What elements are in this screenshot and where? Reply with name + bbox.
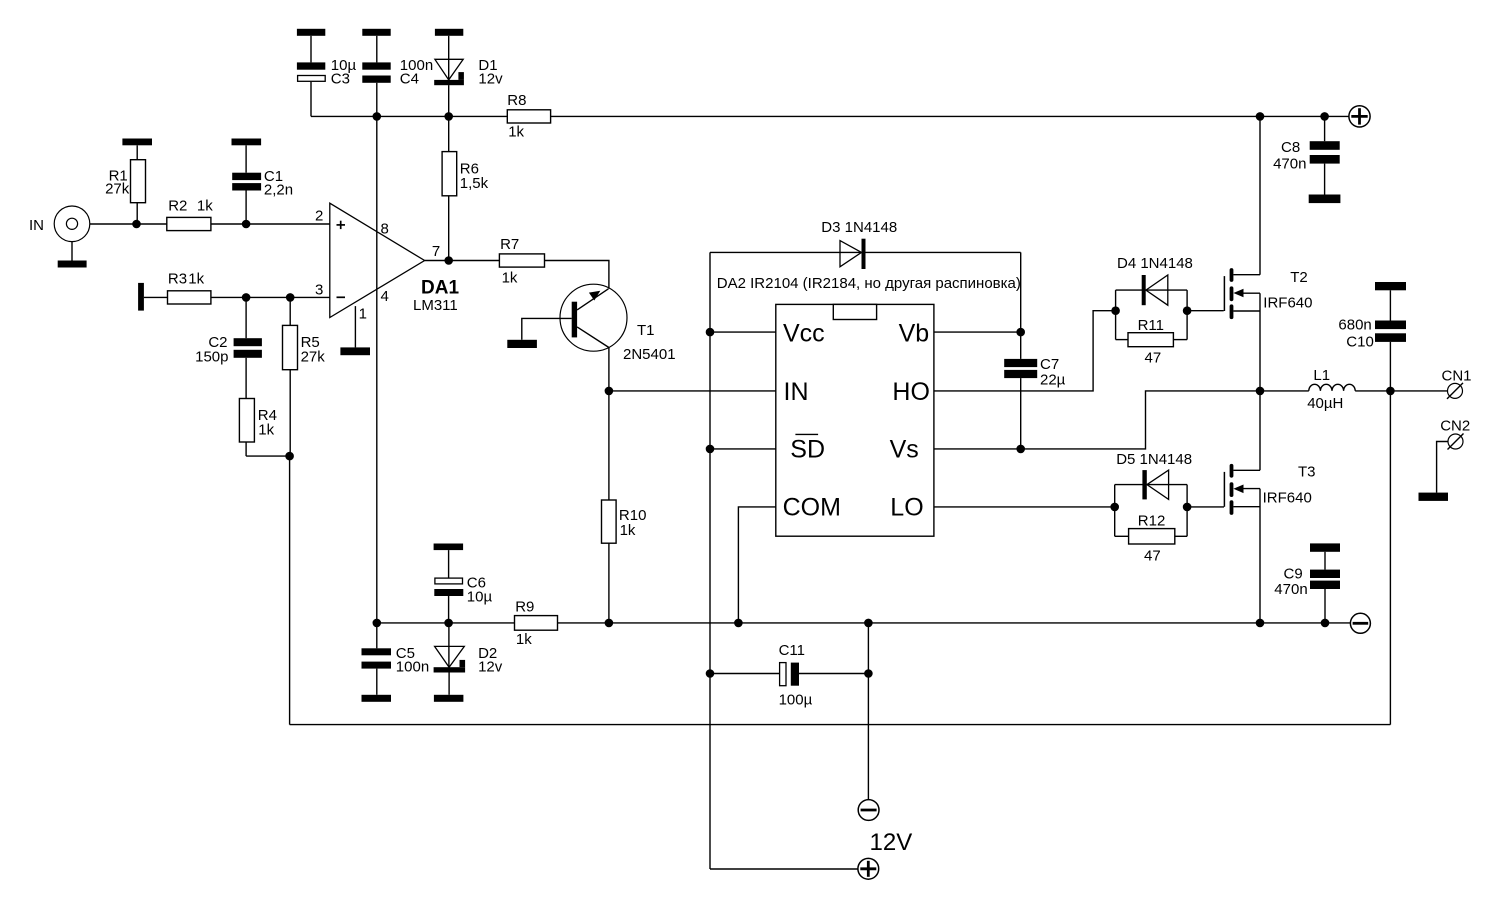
- wire ground bottom rail right: [558, 622, 1351, 624]
- svg-text:C4: C4: [400, 71, 419, 88]
- node Vb junction: [1016, 328, 1025, 337]
- node T3 gate junction: [1183, 503, 1192, 512]
- node C2 junction: [242, 293, 251, 302]
- ground (CN2): [1419, 493, 1449, 501]
- zener diode D1: [434, 29, 503, 117]
- svg-text:CN1: CN1: [1442, 368, 1472, 385]
- svg-text:IRF640: IRF640: [1263, 490, 1312, 507]
- svg-text:R3: R3: [168, 271, 187, 288]
- svg-text:Vs: Vs: [890, 435, 919, 463]
- svg-text:4: 4: [381, 288, 389, 305]
- svg-text:2: 2: [315, 207, 323, 224]
- node SD junction: [706, 445, 715, 454]
- svg-text:Vcc: Vcc: [783, 319, 825, 347]
- svg-text:R12: R12: [1138, 513, 1166, 530]
- capacitor C11: [710, 642, 868, 708]
- node LO/bracket junction: [1110, 503, 1119, 512]
- terminal -12V: [858, 800, 879, 821]
- IC DA2 IR2104: [717, 275, 1021, 536]
- svg-text:12v: 12v: [478, 71, 503, 88]
- svg-text:1k: 1k: [197, 198, 213, 215]
- wire T1 collector to IN pin: [609, 390, 776, 392]
- wire op-amp power pins 8/4: [376, 116, 378, 623]
- svg-text:150p: 150p: [195, 349, 228, 366]
- svg-text:LM311: LM311: [413, 297, 458, 314]
- wire T3 source to bottom rail: [1259, 489, 1261, 623]
- wire IN to ground: [71, 242, 73, 261]
- node op-amp pin4 / rail junction: [373, 619, 382, 628]
- svg-text:C7: C7: [1040, 356, 1059, 373]
- ground (R3 left, rotated bar): [138, 283, 144, 311]
- svg-text:IN: IN: [29, 217, 44, 234]
- transistor T2 IRF640: [1224, 269, 1312, 317]
- node output/R6 junction: [444, 256, 453, 265]
- wire IN to R2: [90, 223, 167, 225]
- wire ground bottom rail left: [377, 622, 515, 624]
- svg-text:2N5401: 2N5401: [623, 346, 676, 363]
- node Vcc junction: [706, 328, 715, 337]
- svg-text:C11: C11: [779, 642, 805, 659]
- svg-text:1: 1: [359, 306, 367, 323]
- wire feedback left vertical: [289, 456, 291, 724]
- svg-text:470n: 470n: [1273, 155, 1306, 172]
- wire T2 source to output node: [1259, 293, 1261, 470]
- svg-text:CN2: CN2: [1440, 418, 1470, 435]
- resistor R7: [499, 236, 544, 287]
- resistor R10: [602, 391, 647, 623]
- svg-text:L1: L1: [1313, 367, 1330, 384]
- transistor T1 2N5401: [560, 284, 676, 391]
- wire R2 to op-amp: [211, 223, 330, 225]
- svg-text:100n: 100n: [396, 658, 429, 675]
- wire Vs pin: [934, 391, 1260, 449]
- node T2 gate junction: [1183, 306, 1192, 315]
- svg-text:1k: 1k: [516, 631, 532, 648]
- wire T2 drain to top rail: [1259, 116, 1261, 274]
- wire HO pin: [934, 311, 1116, 391]
- diode D3 1N4148: [710, 219, 1021, 269]
- wire +12V top rail: [311, 115, 507, 117]
- svg-text:R2: R2: [168, 198, 187, 215]
- wire plus supply horizontal: [710, 868, 858, 870]
- node R4/R5 junction: [285, 452, 294, 461]
- svg-text:D3 1N4148: D3 1N4148: [821, 219, 897, 236]
- svg-text:R7: R7: [500, 236, 519, 253]
- node C11 left junction: [706, 669, 715, 678]
- svg-text:SD: SD: [790, 435, 825, 463]
- svg-text:1k: 1k: [620, 522, 636, 539]
- terminal +supply (top right): [1349, 106, 1370, 127]
- inductor L1: [1260, 367, 1447, 412]
- svg-text:100µ: 100µ: [779, 691, 813, 708]
- resistor R3: [168, 271, 211, 304]
- svg-text:27k: 27k: [301, 349, 326, 366]
- svg-text:R9: R9: [515, 599, 534, 616]
- svg-text:Vb: Vb: [899, 319, 930, 347]
- svg-text:12v: 12v: [478, 658, 503, 675]
- capacitor C6: [434, 544, 493, 623]
- wire Vb pin to D3: [934, 331, 1021, 333]
- wire to T3 gate: [1187, 506, 1224, 508]
- capacitor C2: [195, 297, 262, 398]
- node R10 rail junction: [605, 619, 614, 628]
- terminal IN: [29, 206, 90, 242]
- svg-text:T3: T3: [1298, 463, 1316, 480]
- resistor R5: [283, 297, 326, 456]
- node HO/bracket junction: [1111, 306, 1120, 315]
- node C9/rail junction: [1321, 619, 1330, 628]
- svg-text:47: 47: [1144, 548, 1161, 565]
- svg-text:12V: 12V: [870, 829, 913, 856]
- node C4 / rail junction: [373, 112, 382, 121]
- wire D4/R11 left bracket: [1115, 290, 1117, 340]
- resistor R4: [239, 399, 289, 457]
- capacitor C9: [1274, 543, 1340, 623]
- capacitor C10: [1338, 282, 1406, 391]
- node T3 source / rail junction: [1256, 619, 1265, 628]
- ground (IN terminal): [58, 261, 87, 268]
- node COM/rail junction: [734, 619, 743, 628]
- svg-text:1k: 1k: [258, 421, 274, 438]
- capacitor C5: [362, 623, 430, 702]
- ground (T1 base): [507, 340, 537, 348]
- node L1/C10/feedback junction: [1386, 387, 1395, 396]
- wire R7 to T1 emitter: [545, 261, 609, 289]
- svg-text:1k: 1k: [502, 270, 518, 287]
- node T1 collector junction: [605, 387, 614, 396]
- svg-text:R8: R8: [507, 92, 526, 109]
- terminal CN1: [1442, 368, 1472, 399]
- wire SD pin: [710, 448, 776, 450]
- capacitor C1: [232, 139, 294, 225]
- wire LO pin: [934, 506, 1115, 508]
- svg-text:T2: T2: [1290, 269, 1308, 286]
- diode D5 1N4148: [1115, 451, 1192, 499]
- wire R3 left: [144, 296, 168, 298]
- svg-text:47: 47: [1145, 350, 1162, 367]
- svg-text:DA2 IR2104 (IR2184, но другая: DA2 IR2104 (IR2184, но другая распиновка…: [717, 275, 1021, 292]
- wire Vcc pin: [710, 331, 776, 333]
- svg-text:T1: T1: [637, 322, 655, 339]
- wire CN2 to ground: [1437, 442, 1448, 493]
- node C11/minus rail junction: [864, 619, 873, 628]
- resistor R1: [105, 139, 152, 225]
- wire op-amp pin1: [354, 306, 356, 347]
- svg-text:COM: COM: [783, 493, 841, 521]
- capacitor C4: [362, 29, 433, 117]
- wire op-amp output: [425, 260, 500, 262]
- capacitor C7: [1004, 332, 1065, 449]
- resistor R6: [442, 116, 489, 260]
- svg-text:R11: R11: [1138, 317, 1164, 334]
- wire D5/R12 left bracket: [1114, 485, 1116, 537]
- svg-text:27k: 27k: [105, 181, 130, 198]
- svg-text:7: 7: [432, 243, 440, 260]
- terminal CN2: [1440, 418, 1470, 450]
- node half-bridge output junction: [1256, 387, 1265, 396]
- svg-text:C10: C10: [1346, 334, 1374, 351]
- svg-text:1k: 1k: [188, 271, 204, 288]
- svg-text:LO: LO: [890, 493, 923, 521]
- svg-text:680n: 680n: [1338, 317, 1371, 334]
- resistor R8: [507, 92, 550, 141]
- svg-text:D5 1N4148: D5 1N4148: [1116, 451, 1192, 468]
- svg-text:10µ: 10µ: [467, 588, 493, 605]
- resistor R12: [1115, 513, 1187, 565]
- wire T1 base to ground: [522, 318, 572, 339]
- capacitor C8: [1273, 112, 1340, 203]
- resistor R11: [1116, 317, 1188, 367]
- wire COM pin down to rail: [738, 507, 775, 623]
- wire top rail right of R8: [551, 115, 1349, 117]
- svg-text:470n: 470n: [1274, 581, 1307, 598]
- svg-text:C3: C3: [331, 71, 350, 88]
- resistor R2: [167, 198, 213, 231]
- wire feedback bottom horizontal: [290, 724, 1391, 726]
- svg-text:1k: 1k: [508, 124, 524, 141]
- diode D4 1N4148: [1116, 255, 1193, 305]
- node D1 / rail junction: [444, 112, 453, 121]
- ground (op-amp pin1): [340, 347, 370, 355]
- svg-text:3: 3: [315, 282, 323, 299]
- wire feedback right vertical: [1389, 391, 1391, 725]
- transistor T3 IRF640: [1224, 463, 1315, 513]
- node C1 junction: [242, 220, 251, 229]
- op-amp DA1 LM311: [315, 203, 459, 322]
- wire minus supply vertical: [867, 623, 869, 800]
- capacitor C3: [297, 29, 357, 117]
- svg-text:2,2n: 2,2n: [264, 182, 293, 199]
- svg-text:IRF640: IRF640: [1263, 295, 1312, 312]
- zener diode D2: [434, 623, 503, 702]
- svg-text:40µH: 40µH: [1307, 395, 1343, 412]
- svg-text:8: 8: [381, 220, 389, 237]
- wire D4/R11 right bracket: [1186, 290, 1188, 340]
- node C11 right junction: [864, 669, 873, 678]
- terminal -supply (rail right end): [1350, 613, 1370, 633]
- node R5 junction: [286, 293, 295, 302]
- wire D5/R12 right bracket: [1186, 485, 1188, 537]
- node input junction: [132, 220, 141, 229]
- svg-text:DA1: DA1: [421, 278, 459, 299]
- svg-text:22µ: 22µ: [1040, 372, 1066, 389]
- node C6/D2 rail junction: [444, 619, 453, 628]
- node T2 drain / rail junction: [1256, 112, 1265, 121]
- svg-text:1,5k: 1,5k: [460, 175, 489, 192]
- wire R3 to op-amp inverting input: [211, 296, 330, 298]
- terminal +12V: [858, 858, 879, 879]
- wire to T2 gate: [1187, 310, 1224, 312]
- svg-text:IN: IN: [784, 378, 809, 406]
- svg-text:D4 1N4148: D4 1N4148: [1117, 255, 1193, 272]
- svg-text:HO: HO: [892, 378, 930, 406]
- resistor R9: [515, 599, 558, 649]
- node Vs/C7 junction: [1016, 445, 1025, 454]
- svg-text:C8: C8: [1281, 139, 1300, 156]
- wire +12V vertical feed: [709, 252, 711, 869]
